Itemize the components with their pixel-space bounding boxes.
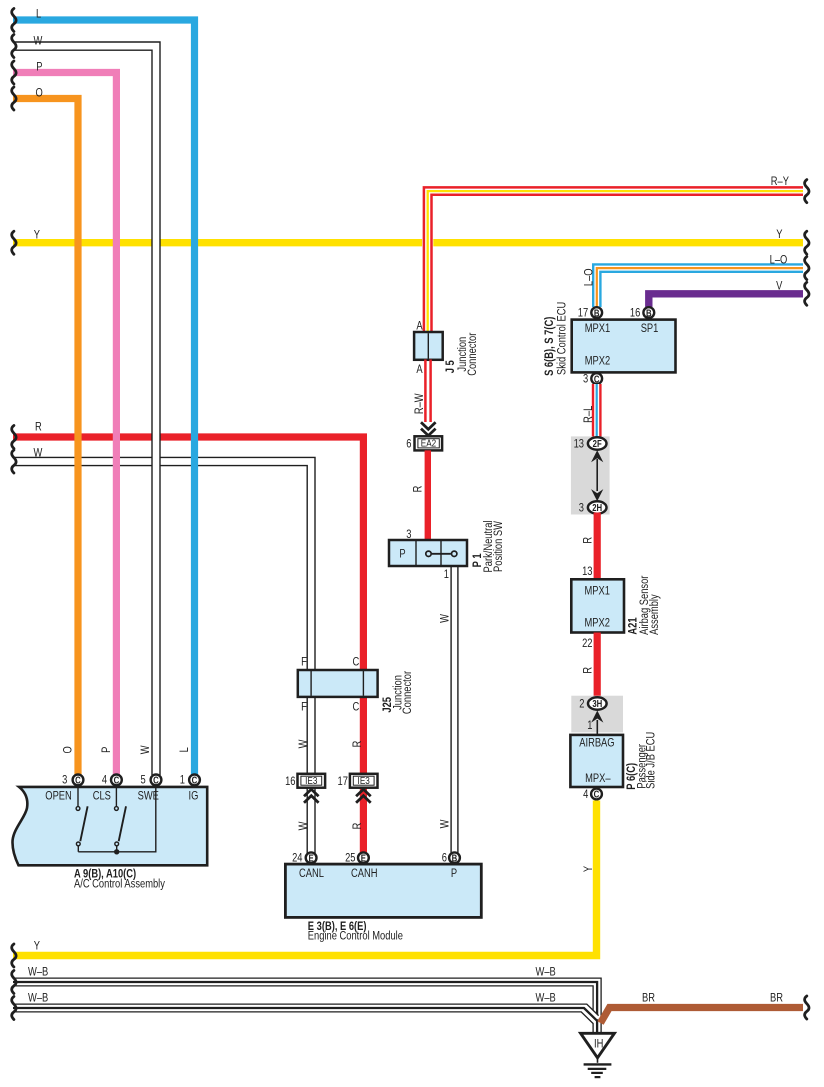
wire R red from 2H to airbag sensor A21	[594, 513, 601, 581]
skid control ECU box	[572, 320, 676, 373]
junction node dot	[114, 849, 119, 854]
label Junction Connector (J5)	[456, 332, 479, 376]
svg-text:AIRBAG: AIRBAG	[579, 736, 614, 749]
wire W white vertical to A/C pin 5	[13, 42, 160, 775]
wire BR brown from ground to right edge	[601, 1008, 804, 1024]
earth symbol	[584, 1064, 612, 1077]
svg-text:BR: BR	[642, 991, 655, 1004]
svg-text:IE3: IE3	[305, 774, 317, 786]
wire Y yellow top horizontal	[13, 239, 803, 246]
svg-text:Y: Y	[34, 228, 40, 241]
svg-text:C: C	[75, 775, 81, 786]
pin 24 E of ECM	[306, 852, 317, 863]
svg-text:MPX1: MPX1	[585, 585, 610, 598]
svg-text:R: R	[35, 420, 42, 433]
svg-text:C: C	[594, 789, 600, 800]
pin 4 C of A/C assembly	[111, 775, 122, 786]
svg-text:CANL: CANL	[299, 867, 324, 880]
svg-text:E: E	[361, 853, 366, 864]
svg-text:IH: IH	[594, 1038, 603, 1051]
connector EA2	[415, 436, 443, 450]
junction connector J25	[298, 670, 378, 697]
svg-text:R: R	[351, 740, 364, 747]
svg-text:IG: IG	[189, 790, 199, 803]
svg-text:C: C	[594, 373, 600, 384]
arrow down inside 2F-2H block	[591, 489, 603, 501]
pin 3 C of A/C assembly	[73, 775, 84, 786]
pin 17 B of skid ECU	[591, 307, 602, 318]
label Passenger Side J/B ECU	[635, 732, 658, 789]
svg-text:V: V	[776, 279, 783, 292]
svg-text:O: O	[61, 746, 74, 753]
svg-text:Connector: Connector	[466, 332, 479, 376]
wire R-Y red/yellow striped from right edge down to J5	[424, 187, 803, 333]
svg-text:OPEN: OPEN	[45, 790, 72, 803]
svg-text:1: 1	[587, 719, 592, 732]
arrow up inside 3H block	[591, 711, 603, 723]
wire L blue vertical to A/C pin 1	[13, 20, 195, 775]
svg-text:P: P	[36, 61, 42, 74]
svg-text:W–B: W–B	[28, 966, 48, 979]
svg-text:E: E	[308, 853, 313, 864]
svg-text:13: 13	[574, 437, 584, 450]
svg-text:L–O: L–O	[582, 268, 595, 286]
svg-text:16: 16	[285, 775, 295, 788]
svg-text:W: W	[297, 821, 310, 831]
svg-text:P: P	[100, 747, 113, 753]
wire Y yellow from P6 pin 4 to left edge	[13, 801, 597, 956]
park/neutral position switch P1	[389, 540, 467, 566]
pin 16 B of skid ECU	[643, 307, 654, 318]
junction block 2F-2H gray	[571, 436, 610, 514]
svg-text:R: R	[582, 667, 595, 674]
wire W white from left edge to J25 to ECM CANL	[13, 457, 315, 853]
svg-text:W: W	[438, 613, 451, 623]
wire O orange vertical to A/C pin 3	[13, 99, 78, 776]
svg-text:3: 3	[62, 774, 67, 787]
A/C control assembly box	[12, 787, 207, 865]
svg-text:6: 6	[442, 852, 447, 865]
connector IE3 pin 16	[298, 774, 326, 788]
svg-text:F: F	[301, 701, 307, 714]
svg-text:R: R	[351, 822, 364, 829]
svg-text:R–Y: R–Y	[771, 175, 789, 188]
svg-text:2F: 2F	[593, 438, 603, 449]
svg-text:25: 25	[345, 852, 355, 865]
ground stem	[597, 1058, 599, 1063]
label Airbag Sensor Assembly	[638, 575, 661, 635]
svg-text:16: 16	[630, 306, 640, 319]
svg-text:17: 17	[337, 775, 347, 788]
svg-text:6: 6	[406, 437, 411, 450]
svg-text:L–O: L–O	[770, 254, 788, 267]
svg-text:W: W	[438, 819, 451, 829]
pin 3 C of skid ECU	[591, 373, 602, 384]
svg-text:C: C	[114, 775, 120, 786]
junction block 3H gray	[571, 696, 623, 733]
junction connector J5	[414, 332, 443, 360]
svg-text:22: 22	[582, 637, 592, 650]
wire R-L red/blue striped from skid ECU pin 3 to 2F	[593, 384, 600, 438]
svg-text:2H: 2H	[592, 502, 602, 513]
svg-text:W: W	[34, 447, 44, 460]
svg-text:5: 5	[140, 774, 145, 787]
svg-text:L: L	[36, 7, 41, 20]
svg-text:MPX1: MPX1	[585, 322, 610, 335]
wire R red from EA2 to P1 pin 3	[425, 450, 431, 541]
switch OPEN inside A/C assembly	[76, 788, 88, 852]
svg-text:W: W	[139, 745, 152, 755]
pin 6 B of ECM	[449, 852, 460, 863]
svg-text:B: B	[594, 307, 600, 318]
svg-text:24: 24	[292, 852, 302, 865]
ground IH	[581, 1033, 615, 1058]
wire W-B white/black lower from left edge to ground	[13, 1004, 599, 1024]
chevron arrow below IE3 17	[356, 789, 371, 802]
svg-text:3: 3	[583, 372, 588, 385]
svg-text:4: 4	[102, 774, 107, 787]
svg-text:F: F	[301, 656, 307, 669]
svg-text:SP1: SP1	[641, 322, 659, 335]
svg-text:CANH: CANH	[351, 867, 378, 880]
svg-text:3: 3	[579, 501, 584, 514]
svg-text:EA2: EA2	[421, 437, 436, 449]
svg-text:MPX2: MPX2	[585, 616, 610, 629]
wire inside 2F-2H block	[596, 459, 598, 491]
svg-text:S 6(B), S 7(C): S 6(B), S 7(C)	[543, 316, 556, 376]
wire W-B white/black upper from left edge to ground	[13, 978, 601, 1034]
svg-text:C: C	[192, 775, 198, 786]
connector oval 2H	[588, 501, 607, 513]
svg-text:A: A	[416, 320, 423, 333]
svg-text:Y: Y	[34, 939, 40, 952]
pin 4 C of P6	[591, 789, 602, 800]
chevron arrow below IE3 16	[304, 789, 319, 802]
pin 1 C of A/C assembly	[189, 775, 200, 786]
arrow up inside 2F-2H block	[591, 450, 603, 462]
svg-text:W: W	[297, 739, 310, 749]
svg-text:R: R	[412, 485, 425, 492]
wire P pink vertical to A/C pin 4	[13, 73, 116, 776]
svg-text:A: A	[416, 363, 423, 376]
svg-text:L: L	[178, 747, 191, 752]
svg-text:1: 1	[180, 774, 185, 787]
airbag sensor assembly A21 box	[571, 579, 624, 632]
svg-text:R: R	[582, 537, 595, 544]
svg-text:Engine Control Module: Engine Control Module	[308, 930, 403, 943]
svg-text:R–W: R–W	[413, 393, 426, 415]
svg-text:O: O	[36, 87, 43, 100]
svg-text:BR: BR	[770, 991, 783, 1004]
svg-text:Assembly: Assembly	[648, 594, 661, 635]
svg-text:W–B: W–B	[536, 966, 556, 979]
svg-text:Skid Control ECU: Skid Control ECU	[556, 302, 569, 375]
svg-text:W–B: W–B	[28, 991, 48, 1004]
connector IE3 pin 17	[350, 774, 378, 788]
svg-text:Position SW: Position SW	[492, 520, 505, 572]
svg-text:Y: Y	[776, 228, 782, 241]
svg-text:CLS: CLS	[93, 790, 111, 803]
svg-text:C: C	[352, 656, 359, 669]
svg-text:C: C	[153, 775, 159, 786]
svg-text:1: 1	[444, 568, 449, 581]
label Park/Neutral Position SW	[482, 520, 505, 572]
svg-text:A/C Control Assembly: A/C Control Assembly	[74, 877, 165, 890]
wire L-O blue/orange striped from skid ECU pin 17 to right edge	[593, 264, 803, 307]
engine control module E3/E6 box	[285, 864, 481, 917]
label Junction Connector (J25)	[391, 671, 414, 715]
svg-text:13: 13	[582, 565, 592, 578]
svg-text:W–B: W–B	[536, 991, 556, 1004]
pin 25 E of ECM	[358, 852, 369, 863]
wire V purple from skid ECU pin 16 to right edge	[649, 294, 803, 307]
svg-text:R–L: R–L	[582, 406, 595, 423]
pin 5 C of A/C assembly	[151, 775, 162, 786]
svg-text:Connector: Connector	[401, 671, 414, 715]
switch CLS inside A/C assembly	[115, 788, 127, 852]
svg-text:MPX–: MPX–	[585, 772, 610, 785]
svg-text:B: B	[452, 853, 458, 864]
wire R red from left edge to J25 to ECM CANH	[13, 437, 363, 853]
svg-text:W: W	[34, 34, 44, 47]
svg-text:IE3: IE3	[358, 774, 370, 786]
svg-text:P: P	[451, 867, 457, 880]
wire from 3H arrow into P6 box	[596, 720, 598, 736]
svg-text:4: 4	[583, 788, 588, 801]
connector oval 3H	[588, 697, 607, 709]
left edge break squiggles	[12, 9, 16, 1020]
wire connecting switches to SWE pin	[78, 788, 156, 852]
svg-text:2: 2	[579, 697, 584, 710]
svg-text:P: P	[399, 548, 405, 561]
svg-text:17: 17	[578, 306, 588, 319]
wire W white from P1 pin 1 to ECM pin 6	[451, 567, 458, 853]
connector oval 2F	[588, 437, 607, 449]
svg-text:3H: 3H	[592, 698, 602, 709]
wire R red from A21 to 3H	[594, 633, 601, 699]
right edge break squiggles	[805, 180, 809, 1019]
svg-text:Side J/B ECU: Side J/B ECU	[644, 732, 657, 789]
svg-text:MPX2: MPX2	[585, 355, 610, 368]
passenger side J/B ECU P6 box	[570, 735, 623, 787]
wire R-W red/white striped from J5 to EA2	[425, 360, 430, 423]
svg-text:B: B	[646, 307, 652, 318]
chevron arrow into EA2	[421, 422, 436, 435]
svg-text:Y: Y	[582, 866, 595, 872]
svg-text:C: C	[352, 701, 359, 714]
